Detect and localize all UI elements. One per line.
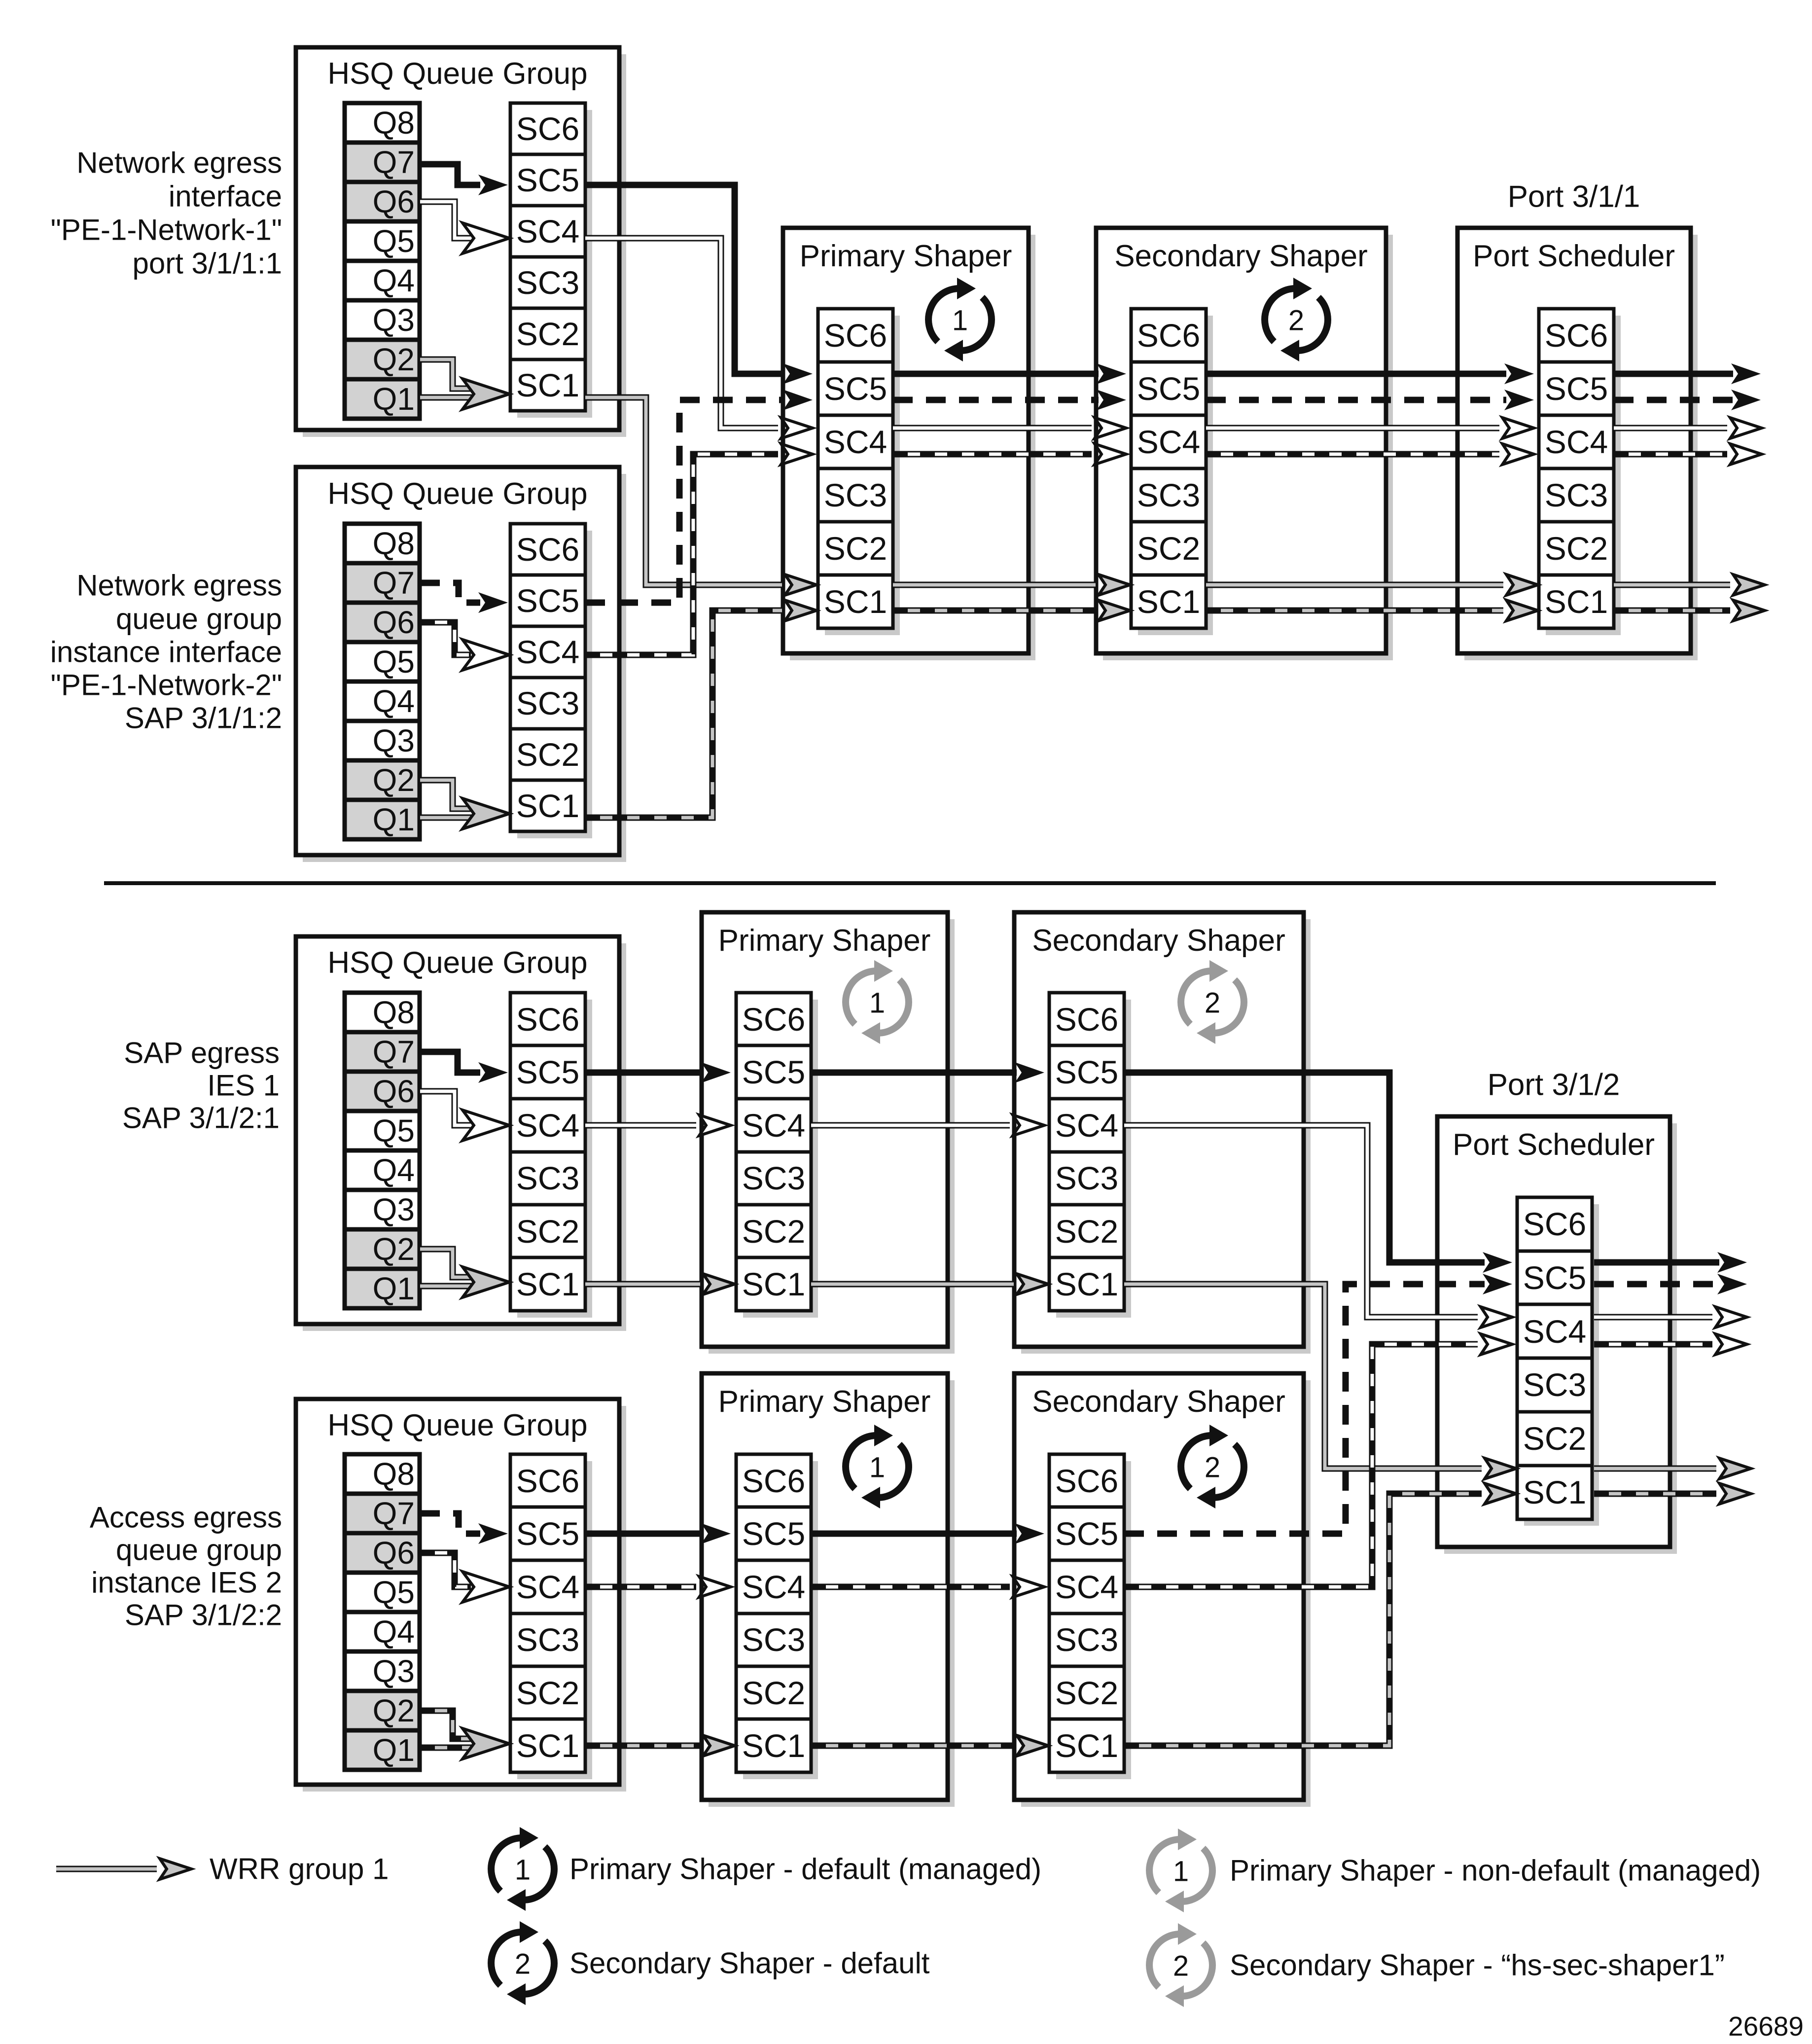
svg-text:Q6: Q6 bbox=[373, 1535, 415, 1571]
wire IES2 Primary to Secondary SC4 (dashed) bbox=[811, 1577, 1044, 1597]
label network egress interface PE-1-Network-1 port 3/1/1:1 bbox=[51, 146, 282, 280]
svg-text:SC4: SC4 bbox=[1055, 1569, 1118, 1605]
svg-text:Q5: Q5 bbox=[373, 223, 415, 259]
SC stack of Port 3/1/2 scheduler bbox=[1517, 1197, 1599, 1526]
primary shaper 1 icon (black, default managed, IES 2) bbox=[846, 1425, 909, 1508]
svg-text:SC2: SC2 bbox=[742, 1213, 805, 1250]
svg-text:SC5: SC5 bbox=[742, 1515, 805, 1552]
wire Q6 to SC4 in HSQ group 4 (dashed) bbox=[420, 1553, 509, 1602]
wire HSQ4 SC4 to IES2 Primary Shaper SC4 (dashed) bbox=[585, 1577, 731, 1597]
svg-text:SAP egress: SAP egress bbox=[124, 1037, 280, 1070]
svg-text:SC2: SC2 bbox=[824, 530, 887, 567]
svg-text:Q1: Q1 bbox=[373, 802, 415, 837]
svg-text:Secondary Shaper: Secondary Shaper bbox=[1032, 924, 1285, 958]
svg-text:SC1: SC1 bbox=[1137, 583, 1200, 620]
scheduling class stack SC6-SC1 of HSQ group 3 bbox=[510, 993, 592, 1318]
wire Primary to Secondary Shaper SC1 bbox=[893, 574, 1130, 595]
wire IES1 Primary to Secondary SC5 bbox=[811, 1062, 1044, 1083]
HSQ Queue Group 3 (SAP egress IES 1) box bbox=[296, 936, 626, 1331]
scheduling class stack SC6-SC1 of HSQ group 2 bbox=[510, 524, 592, 838]
svg-text:SC4: SC4 bbox=[516, 1107, 579, 1144]
svg-text:port 3/1/1:1: port 3/1/1:1 bbox=[132, 247, 282, 280]
svg-text:SC4: SC4 bbox=[1545, 424, 1608, 460]
svg-text:SC5: SC5 bbox=[516, 1515, 579, 1552]
legend icon secondary shaper hs-sec-shaper1 (gray 2) bbox=[1149, 1923, 1212, 2007]
svg-text:SC6: SC6 bbox=[516, 531, 579, 568]
label access egress queue group instance IES 2 SAP 3/1/2:2 bbox=[90, 1501, 282, 1632]
svg-text:2: 2 bbox=[1205, 1452, 1220, 1484]
queue stack Q8-Q1 of HSQ group 1 bbox=[345, 103, 420, 419]
svg-text:queue group: queue group bbox=[116, 603, 282, 636]
svg-text:SC1: SC1 bbox=[516, 1266, 579, 1302]
wire HSQ2 SC1 to Primary Shaper SC1 (dashed) bbox=[585, 600, 817, 818]
SC stack of IES 1 Primary Shaper bbox=[736, 993, 818, 1318]
wire Primary to Secondary Shaper SC5 bbox=[893, 363, 1126, 384]
svg-text:SC1: SC1 bbox=[742, 1727, 805, 1764]
Primary Shaper box (IES 1) box bbox=[702, 912, 955, 1354]
wire HSQ4 SC1 to IES2 Primary Shaper SC1 (dashed) bbox=[585, 1735, 735, 1756]
svg-text:SAP 3/1/1:2: SAP 3/1/1:2 bbox=[125, 702, 282, 735]
svg-text:SC5: SC5 bbox=[516, 582, 579, 619]
svg-text:Q6: Q6 bbox=[373, 1074, 415, 1109]
svg-text:1: 1 bbox=[1173, 1856, 1189, 1888]
wire Primary to Secondary Shaper SC1 (dashed) bbox=[893, 600, 1130, 621]
svg-text:1: 1 bbox=[869, 987, 885, 1019]
svg-text:SC3: SC3 bbox=[516, 1621, 579, 1658]
svg-text:SC2: SC2 bbox=[1523, 1420, 1586, 1457]
svg-text:SC2: SC2 bbox=[1055, 1675, 1118, 1711]
svg-text:SC2: SC2 bbox=[516, 316, 579, 352]
wire Q2 to SC1 in HSQ group 3 bbox=[420, 1249, 476, 1277]
svg-text:SC2: SC2 bbox=[516, 736, 579, 773]
wire IES1 Primary to Secondary SC1 bbox=[811, 1274, 1048, 1294]
wire Secondary Shaper to Port Scheduler SC1 bbox=[1206, 574, 1538, 595]
svg-text:Q3: Q3 bbox=[373, 1653, 415, 1689]
wire Secondary Shaper to Port Scheduler SC4 (dashed) bbox=[1206, 444, 1534, 465]
secondary shaper 2 icon (gray, hs-sec-shaper1) bbox=[1181, 960, 1244, 1044]
svg-text:SC6: SC6 bbox=[742, 1001, 805, 1038]
svg-text:Secondary Shaper - default: Secondary Shaper - default bbox=[569, 1947, 930, 1980]
wire Port 3/1/1 SC1 egress bbox=[1614, 574, 1765, 595]
SC stack of top Primary Shaper bbox=[818, 309, 900, 635]
svg-text:SC4: SC4 bbox=[824, 424, 887, 460]
wire Q1 to SC1 in HSQ group 2 bbox=[420, 815, 476, 821]
svg-text:SC4: SC4 bbox=[516, 1569, 579, 1605]
wire HSQ1 SC1 to Primary Shaper SC1 bbox=[585, 397, 817, 595]
svg-text:SC6: SC6 bbox=[1137, 317, 1200, 354]
svg-text:SC4: SC4 bbox=[1137, 424, 1200, 460]
Primary Shaper box (IES 2) box bbox=[702, 1373, 955, 1807]
gray arrowhead into SC1 of HSQ group 1 bbox=[462, 379, 509, 409]
wire Secondary Shaper to Port Scheduler SC5 bbox=[1206, 363, 1534, 384]
wire Q6 to SC4 in HSQ group 1 bbox=[420, 202, 509, 253]
wire Q1 to SC1 in HSQ group 3 bbox=[420, 1283, 476, 1290]
wire IES1 Primary to Secondary SC4 bbox=[811, 1115, 1044, 1136]
svg-text:SC3: SC3 bbox=[1055, 1621, 1118, 1658]
SC stack of IES 1 Secondary Shaper bbox=[1049, 993, 1131, 1318]
HSQ Queue Group 2 (network egress queue group instance PE-1-Network-2) box bbox=[296, 467, 626, 862]
svg-text:"PE-1-Network-2": "PE-1-Network-2" bbox=[51, 669, 282, 702]
svg-text:SC3: SC3 bbox=[1545, 477, 1608, 513]
svg-text:instance interface: instance interface bbox=[50, 636, 282, 669]
svg-text:SC4: SC4 bbox=[1523, 1313, 1586, 1350]
scheduling class stack SC6-SC1 of HSQ group 4 bbox=[510, 1454, 592, 1779]
svg-text:SC4: SC4 bbox=[516, 213, 579, 250]
svg-text:2: 2 bbox=[1173, 1950, 1189, 1982]
svg-text:Network egress: Network egress bbox=[76, 146, 282, 179]
label network egress queue group instance interface PE-1-Network-2 SAP 3/1/1:2 bbox=[50, 569, 282, 735]
wire IES2 Primary to Secondary SC5 bbox=[811, 1523, 1044, 1544]
svg-text:SC6: SC6 bbox=[742, 1463, 805, 1499]
svg-text:Port 3/1/2: Port 3/1/2 bbox=[1488, 1068, 1620, 1102]
wire Q6 to SC4 in HSQ group 2 (dashed) bbox=[420, 622, 509, 670]
svg-text:Q2: Q2 bbox=[373, 762, 415, 798]
svg-text:SC3: SC3 bbox=[742, 1621, 805, 1658]
svg-text:SC1: SC1 bbox=[1523, 1474, 1586, 1510]
svg-text:SC1: SC1 bbox=[516, 788, 579, 824]
svg-text:Q3: Q3 bbox=[373, 723, 415, 758]
wire IES2 Secondary SC4 to Port 3/1/2 SC4 (dashed) bbox=[1124, 1334, 1512, 1587]
svg-text:26689: 26689 bbox=[1728, 2011, 1804, 2042]
svg-text:2: 2 bbox=[515, 1948, 531, 1980]
svg-text:Primary Shaper - default (mana: Primary Shaper - default (managed) bbox=[569, 1853, 1041, 1886]
svg-text:SC1: SC1 bbox=[516, 1727, 579, 1764]
wire Port 3/1/1 SC5 egress bbox=[1614, 363, 1761, 384]
wire Q1 to SC1 in HSQ group 4 (dashed) bbox=[420, 1745, 476, 1751]
svg-text:SAP 3/1/2:1: SAP 3/1/2:1 bbox=[122, 1102, 280, 1135]
svg-text:SC2: SC2 bbox=[1137, 530, 1200, 567]
svg-text:Primary Shaper: Primary Shaper bbox=[718, 924, 931, 958]
svg-text:SC2: SC2 bbox=[1055, 1213, 1118, 1250]
Secondary Shaper box (IES 1) box bbox=[1014, 912, 1311, 1354]
svg-text:SC6: SC6 bbox=[516, 1001, 579, 1038]
wire Q7 to SC5 in HSQ group 3 bbox=[420, 1052, 508, 1083]
queue stack Q8-Q1 of HSQ group 3 bbox=[345, 993, 420, 1308]
svg-text:SC5: SC5 bbox=[742, 1054, 805, 1090]
svg-text:2: 2 bbox=[1205, 987, 1220, 1019]
svg-text:SC4: SC4 bbox=[1055, 1107, 1118, 1144]
svg-text:SC5: SC5 bbox=[1055, 1515, 1118, 1552]
svg-text:SC6: SC6 bbox=[1055, 1463, 1118, 1499]
wire Q1 to SC1 in HSQ group 1 (WRR group 1) bbox=[420, 394, 476, 401]
svg-text:SC6: SC6 bbox=[1055, 1001, 1118, 1038]
svg-text:Q2: Q2 bbox=[373, 342, 415, 377]
svg-text:SC2: SC2 bbox=[1545, 530, 1608, 567]
svg-text:SC3: SC3 bbox=[742, 1160, 805, 1196]
Port Scheduler box (Port 3/1/1) box bbox=[1457, 228, 1698, 660]
wire Secondary Shaper to Port Scheduler SC1 (dashed) bbox=[1206, 600, 1538, 621]
wire Port 3/1/1 SC4 egress (dashed) bbox=[1614, 444, 1762, 465]
wire HSQ3 SC5 to IES1 Primary Shaper SC5 bbox=[585, 1062, 731, 1083]
svg-text:Q3: Q3 bbox=[373, 1192, 415, 1227]
wire Q7 to SC5 in HSQ group 4 (dashed) bbox=[420, 1513, 508, 1544]
svg-text:SC5: SC5 bbox=[1523, 1259, 1586, 1296]
svg-text:1: 1 bbox=[515, 1854, 531, 1886]
wire Port 3/1/2 SC5 egress (dashed) bbox=[1594, 1274, 1747, 1294]
svg-text:SC5: SC5 bbox=[516, 1054, 579, 1090]
svg-text:queue group: queue group bbox=[116, 1534, 282, 1567]
svg-text:SC3: SC3 bbox=[1137, 477, 1200, 513]
svg-text:SC6: SC6 bbox=[516, 1463, 579, 1499]
wire Port 3/1/2 SC5 egress bbox=[1594, 1252, 1747, 1273]
svg-text:SC3: SC3 bbox=[824, 477, 887, 513]
svg-text:SC1: SC1 bbox=[1055, 1727, 1118, 1764]
svg-text:Q5: Q5 bbox=[373, 1113, 415, 1148]
svg-text:Q2: Q2 bbox=[373, 1231, 415, 1267]
svg-text:Primary Shaper: Primary Shaper bbox=[800, 239, 1012, 273]
svg-text:SC1: SC1 bbox=[824, 583, 887, 620]
svg-text:SC4: SC4 bbox=[742, 1569, 805, 1605]
wire HSQ1 SC4 to Primary Shaper SC4 bbox=[585, 238, 813, 438]
svg-text:SC3: SC3 bbox=[1055, 1160, 1118, 1196]
svg-text:Q3: Q3 bbox=[373, 302, 415, 338]
svg-text:Q8: Q8 bbox=[373, 1456, 415, 1492]
svg-text:SC3: SC3 bbox=[516, 264, 579, 301]
svg-text:SC3: SC3 bbox=[516, 685, 579, 721]
secondary shaper 2 icon (black, default) bbox=[1265, 278, 1328, 361]
wire IES1 Secondary SC5 to Port 3/1/2 SC5 bbox=[1124, 1073, 1512, 1273]
svg-text:2: 2 bbox=[1288, 305, 1304, 337]
wire Q7 to SC5 in HSQ group 2 (dashed) bbox=[420, 583, 508, 613]
svg-text:SC6: SC6 bbox=[824, 317, 887, 354]
svg-text:Port Scheduler: Port Scheduler bbox=[1473, 239, 1675, 273]
svg-text:interface: interface bbox=[169, 180, 282, 213]
wire HSQ1 SC5 to Primary Shaper SC5 bbox=[585, 185, 813, 384]
label SAP egress IES 1 SAP 3/1/2:1 bbox=[122, 1037, 280, 1135]
svg-text:SC5: SC5 bbox=[1545, 370, 1608, 407]
svg-text:Q2: Q2 bbox=[373, 1693, 415, 1728]
Port Scheduler box (Port 3/1/2) box bbox=[1437, 1116, 1677, 1554]
gray arrowhead into SC1 of HSQ group 3 bbox=[462, 1267, 509, 1297]
wire Port 3/1/1 SC1 egress (dashed) bbox=[1614, 600, 1765, 621]
wire Q6 to SC4 in HSQ group 3 bbox=[420, 1091, 509, 1141]
svg-text:"PE-1-Network-1": "PE-1-Network-1" bbox=[51, 214, 282, 247]
secondary shaper 2 icon (black, default, IES 2) bbox=[1181, 1425, 1244, 1508]
HSQ Queue Group 1 (network egress interface PE-1-Network-1) box bbox=[296, 47, 626, 437]
SC stack of IES 2 Primary Shaper bbox=[736, 1454, 818, 1779]
SC stack of Port 3/1/1 scheduler bbox=[1539, 309, 1621, 635]
wire IES1 Secondary SC4 to Port 3/1/2 SC4 bbox=[1124, 1125, 1512, 1327]
svg-text:SC1: SC1 bbox=[1055, 1266, 1118, 1302]
wire HSQ3 SC1 to IES1 Primary Shaper SC1 bbox=[585, 1274, 735, 1294]
svg-text:Q4: Q4 bbox=[373, 1614, 415, 1650]
queue stack Q8-Q1 of HSQ group 4 bbox=[345, 1454, 420, 1770]
svg-text:SC5: SC5 bbox=[824, 370, 887, 407]
wire Q2 to SC1 in HSQ group 2 bbox=[420, 780, 476, 809]
wire Q2 to SC1 in HSQ group 4 (dashed) bbox=[420, 1711, 476, 1739]
wire Q7 to SC5 in HSQ group 1 bbox=[420, 164, 508, 195]
gray arrowhead into SC1 of HSQ group 2 bbox=[462, 798, 509, 829]
svg-text:HSQ Queue Group: HSQ Queue Group bbox=[327, 477, 587, 511]
svg-text:Q6: Q6 bbox=[373, 605, 415, 640]
svg-text:Q1: Q1 bbox=[373, 1271, 415, 1306]
svg-text:Q4: Q4 bbox=[373, 263, 415, 298]
svg-text:Q7: Q7 bbox=[373, 1034, 415, 1070]
Secondary Shaper box (IES 2) box bbox=[1014, 1373, 1311, 1807]
wire Primary to Secondary Shaper SC4 (dashed) bbox=[893, 444, 1126, 465]
Secondary Shaper box (top) box bbox=[1096, 228, 1393, 660]
svg-text:Q5: Q5 bbox=[373, 1575, 415, 1610]
svg-text:SC2: SC2 bbox=[516, 1675, 579, 1711]
wire IES2 Primary to Secondary SC1 (dashed) bbox=[811, 1735, 1048, 1756]
HSQ Queue Group 4 (access egress queue group instance IES 2) box bbox=[296, 1399, 626, 1792]
svg-text:SC3: SC3 bbox=[1523, 1366, 1586, 1403]
primary shaper 1 icon (gray, non-default managed) bbox=[846, 960, 909, 1044]
svg-text:Q8: Q8 bbox=[373, 105, 415, 141]
wire Port 3/1/2 SC4 egress (dashed) bbox=[1594, 1334, 1747, 1355]
svg-text:Secondary Shaper: Secondary Shaper bbox=[1032, 1385, 1285, 1419]
wire Q2 to SC1 in HSQ group 1 bbox=[420, 359, 476, 389]
svg-text:SC2: SC2 bbox=[742, 1675, 805, 1711]
legend icon secondary shaper default (black 2) bbox=[491, 1921, 554, 2005]
wire Port 3/1/2 SC1 egress bbox=[1594, 1458, 1751, 1479]
wire HSQ2 SC5 to Primary Shaper SC5 (dashed) bbox=[585, 390, 813, 603]
svg-text:SC2: SC2 bbox=[516, 1213, 579, 1250]
svg-text:WRR group 1: WRR group 1 bbox=[210, 1853, 389, 1886]
svg-text:Q6: Q6 bbox=[373, 184, 415, 219]
wire Port 3/1/1 SC4 egress bbox=[1614, 418, 1762, 438]
svg-text:Q7: Q7 bbox=[373, 565, 415, 601]
wire Secondary Shaper to Port Scheduler SC5 (dashed) bbox=[1206, 390, 1534, 410]
svg-text:Secondary Shaper: Secondary Shaper bbox=[1114, 239, 1368, 273]
svg-text:HSQ Queue Group: HSQ Queue Group bbox=[327, 946, 587, 980]
svg-text:SC5: SC5 bbox=[1055, 1054, 1118, 1090]
svg-text:Network egress: Network egress bbox=[76, 569, 282, 602]
horizontal separator line between sections bbox=[104, 881, 1716, 885]
svg-text:Q5: Q5 bbox=[373, 644, 415, 680]
wire HSQ3 SC4 to IES1 Primary Shaper SC4 bbox=[585, 1115, 731, 1136]
svg-text:SC4: SC4 bbox=[742, 1107, 805, 1144]
svg-text:Q7: Q7 bbox=[373, 144, 415, 180]
svg-text:Q8: Q8 bbox=[373, 526, 415, 561]
svg-text:Primary Shaper: Primary Shaper bbox=[718, 1385, 931, 1419]
svg-text:Primary Shaper - non-default (: Primary Shaper - non-default (managed) bbox=[1230, 1854, 1761, 1887]
svg-text:Q4: Q4 bbox=[373, 683, 415, 719]
svg-text:Q1: Q1 bbox=[373, 381, 415, 417]
legend icon primary shaper default (black 1) bbox=[491, 1827, 554, 1911]
svg-text:Q7: Q7 bbox=[373, 1496, 415, 1531]
svg-text:SC6: SC6 bbox=[1545, 317, 1608, 354]
gray arrowhead into SC1 of HSQ group 4 bbox=[462, 1728, 509, 1759]
svg-text:Secondary Shaper - “hs-sec-sha: Secondary Shaper - “hs-sec-shaper1” bbox=[1230, 1949, 1725, 1982]
SC stack of IES 2 Secondary Shaper bbox=[1049, 1454, 1131, 1779]
Primary Shaper box (top) box bbox=[783, 228, 1035, 660]
svg-text:Port Scheduler: Port Scheduler bbox=[1453, 1128, 1655, 1162]
wire Port 3/1/2 SC4 egress bbox=[1594, 1307, 1747, 1327]
primary shaper 1 icon (black, default managed) bbox=[928, 278, 992, 361]
wire IES2 Secondary SC5 to Port 3/1/2 SC5 (dashed) bbox=[1124, 1274, 1512, 1534]
svg-text:1: 1 bbox=[869, 1452, 885, 1484]
wire HSQ2 SC4 to Primary Shaper SC4 (dashed) bbox=[585, 444, 813, 655]
svg-text:SC3: SC3 bbox=[516, 1160, 579, 1196]
svg-text:1: 1 bbox=[952, 305, 968, 337]
svg-text:instance IES 2: instance IES 2 bbox=[91, 1566, 282, 1599]
wire Primary to Secondary Shaper SC5 (dashed) bbox=[893, 390, 1126, 410]
legend WRR group 1 arrow bbox=[56, 1859, 191, 1879]
svg-text:HSQ Queue Group: HSQ Queue Group bbox=[327, 57, 587, 91]
wire HSQ4 SC5 to IES2 Primary Shaper SC5 bbox=[585, 1523, 731, 1544]
SC stack of top Secondary Shaper bbox=[1131, 309, 1213, 635]
wire Secondary Shaper to Port Scheduler SC4 bbox=[1206, 418, 1534, 438]
svg-text:SC5: SC5 bbox=[1137, 370, 1200, 407]
svg-text:Q1: Q1 bbox=[373, 1732, 415, 1768]
wire Primary to Secondary Shaper SC4 bbox=[893, 418, 1126, 438]
svg-text:Access egress: Access egress bbox=[90, 1501, 282, 1534]
scheduling class stack SC6-SC1 of HSQ group 1 bbox=[510, 103, 592, 418]
wire Port 3/1/2 SC1 egress (dashed) bbox=[1594, 1483, 1751, 1504]
svg-text:SC1: SC1 bbox=[742, 1266, 805, 1302]
legend icon primary shaper non-default (gray 1) bbox=[1149, 1829, 1212, 1912]
wire IES1 Secondary SC1 to Port 3/1/2 SC1 bbox=[1124, 1284, 1516, 1479]
svg-text:SC1: SC1 bbox=[1545, 583, 1608, 620]
svg-text:HSQ Queue Group: HSQ Queue Group bbox=[327, 1408, 587, 1442]
queue stack Q8-Q1 of HSQ group 2 bbox=[345, 524, 420, 839]
svg-text:SC4: SC4 bbox=[516, 634, 579, 670]
wire IES2 Secondary SC1 to Port 3/1/2 SC1 (dashed) bbox=[1124, 1483, 1516, 1746]
svg-text:Port 3/1/1: Port 3/1/1 bbox=[1508, 180, 1640, 214]
wire Port 3/1/1 SC5 egress (dashed) bbox=[1614, 390, 1761, 410]
svg-text:Q8: Q8 bbox=[373, 995, 415, 1030]
svg-text:Q4: Q4 bbox=[373, 1152, 415, 1188]
svg-text:SC1: SC1 bbox=[516, 367, 579, 403]
svg-text:SAP 3/1/2:2: SAP 3/1/2:2 bbox=[125, 1599, 282, 1632]
svg-text:SC6: SC6 bbox=[516, 110, 579, 147]
svg-text:SC5: SC5 bbox=[516, 162, 579, 198]
svg-text:SC6: SC6 bbox=[1523, 1206, 1586, 1242]
svg-text:IES 1: IES 1 bbox=[207, 1069, 280, 1102]
